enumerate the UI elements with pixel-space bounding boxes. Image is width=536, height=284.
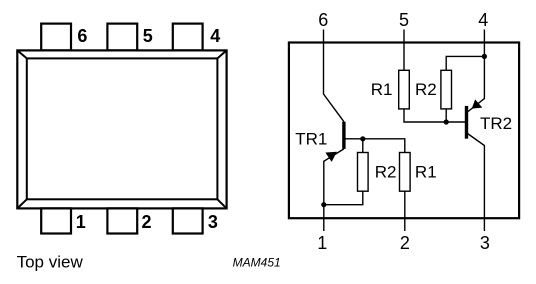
svg-text:3: 3 bbox=[480, 233, 490, 253]
svg-text:R2: R2 bbox=[375, 163, 397, 182]
svg-text:3: 3 bbox=[208, 212, 218, 232]
svg-text:Top view: Top view bbox=[17, 253, 84, 272]
svg-text:TR2: TR2 bbox=[480, 114, 512, 133]
svg-text:R1: R1 bbox=[371, 80, 393, 99]
svg-text:1: 1 bbox=[317, 233, 327, 253]
svg-text:6: 6 bbox=[77, 26, 87, 46]
svg-text:6: 6 bbox=[318, 10, 328, 30]
svg-text:MAM451: MAM451 bbox=[233, 255, 281, 269]
svg-text:5: 5 bbox=[399, 10, 409, 30]
svg-text:1: 1 bbox=[76, 212, 86, 232]
svg-text:5: 5 bbox=[143, 26, 153, 46]
svg-text:2: 2 bbox=[141, 212, 151, 232]
svg-text:R2: R2 bbox=[415, 80, 437, 99]
svg-text:4: 4 bbox=[210, 26, 220, 46]
svg-text:2: 2 bbox=[400, 233, 410, 253]
svg-text:4: 4 bbox=[478, 10, 488, 30]
svg-text:TR1: TR1 bbox=[295, 130, 327, 149]
svg-text:R1: R1 bbox=[415, 163, 437, 182]
